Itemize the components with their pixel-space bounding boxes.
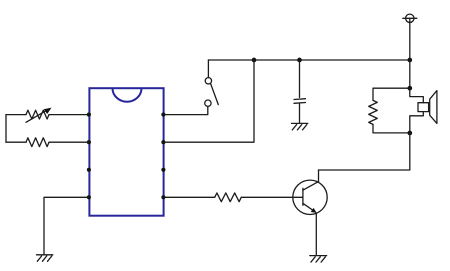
wire switch upper contact to top rail [207, 60, 209, 78]
IC pin dots right (pins 5-8) [161, 113, 165, 200]
wire IC pin4 to ground (left-bottom) [44, 197, 89, 254]
wire R2 right lead to IC [49, 141, 89, 143]
IC pin dots left (pins 1-4) [87, 113, 91, 200]
ground G2 (below capacitor) [292, 123, 308, 129]
resistor R3 (base resistor) [215, 193, 242, 202]
wire supply terminal down to top rail [409, 23, 411, 61]
node junction top rail / capacitor branch [297, 58, 302, 63]
power terminal VCC (circled terminal top-right) [403, 14, 417, 22]
wire capacitor bottom lead [299, 103, 301, 122]
wire discharge branch down to IC pin7 [164, 60, 254, 142]
wire collector stub down to transistor [318, 170, 320, 182]
resistor R4 (vertical, parallel with speaker) [369, 100, 378, 124]
node junction speaker top [407, 86, 412, 91]
wire speaker top terminal [410, 88, 424, 103]
wire collector rail (right vertical down and left) [319, 133, 410, 170]
wire speaker bottom terminal [410, 112, 424, 133]
wire emitter down to ground [315, 213, 317, 255]
ground G3 (below transistor) [310, 256, 327, 263]
switch S1 (SPST open contacts with lever) [205, 78, 219, 107]
wire left loop vertical [5, 115, 7, 143]
wire R1 left lead [6, 114, 26, 116]
node junction speaker bottom [407, 131, 412, 136]
wire IC pin5 to base resistor [164, 196, 215, 198]
wire capacitor top lead [299, 60, 301, 97]
speaker LS1 [418, 91, 437, 124]
potentiometer R1 (variable resistor zigzag with arrow) [26, 108, 52, 123]
wire top supply rail [208, 59, 409, 61]
wire R4 top lead [373, 88, 410, 100]
node junction top rail corner [407, 58, 412, 63]
ground G1 (bottom-left earth symbol) [37, 255, 53, 261]
resistor R2 [26, 138, 49, 147]
transistor Q1 (NPN) [293, 180, 327, 214]
wire R2 left lead [6, 141, 26, 143]
node junction top rail / discharge branch [252, 58, 257, 63]
wire R4 bottom lead [373, 124, 410, 132]
wire base lead to transistor [241, 196, 302, 198]
wire right vertical to speaker node [409, 60, 411, 88]
wire R1 right lead to IC [49, 114, 89, 116]
wire IC pin8 (top right) to switch lower contact [164, 107, 208, 115]
capacitor C1 [294, 99, 306, 104]
IC U1 body (blue DIP outline with top notch) [89, 88, 163, 216]
